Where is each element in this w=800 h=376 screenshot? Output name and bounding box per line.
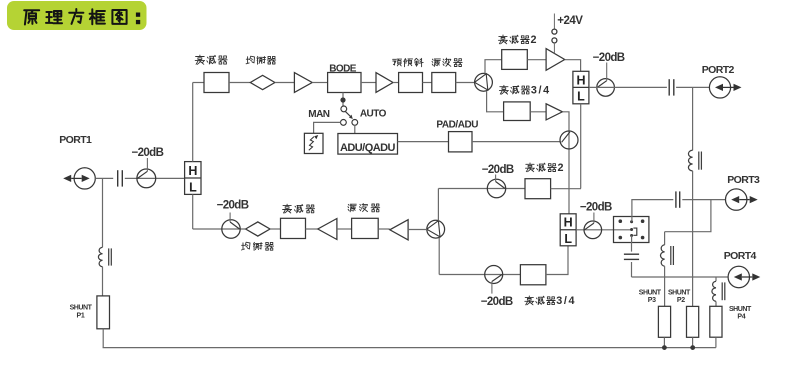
svg-text:L: L — [564, 232, 572, 246]
svg-text:SHUNT: SHUNT — [70, 305, 93, 312]
svg-text:BODE: BODE — [329, 64, 357, 75]
svg-text:/: / — [539, 85, 542, 97]
svg-text:H: H — [576, 73, 585, 87]
svg-text:−20dB: −20dB — [482, 164, 514, 176]
svg-text:L: L — [577, 90, 585, 104]
svg-text:2: 2 — [531, 34, 537, 46]
svg-text:3: 3 — [556, 295, 562, 307]
svg-text:MAN: MAN — [308, 109, 330, 120]
svg-text:−20dB: −20dB — [217, 200, 249, 212]
svg-text:SHUNT: SHUNT — [668, 290, 691, 297]
svg-text:L: L — [189, 180, 197, 194]
svg-text:SHUNT: SHUNT — [639, 290, 662, 297]
svg-text:AUTO: AUTO — [360, 108, 387, 119]
svg-text:−20dB: −20dB — [593, 52, 625, 64]
svg-text:P2: P2 — [677, 297, 685, 304]
svg-text:PORT4: PORT4 — [724, 250, 757, 262]
svg-text:P4: P4 — [737, 313, 745, 320]
svg-text:/: / — [564, 295, 567, 307]
svg-text:2: 2 — [558, 162, 564, 174]
svg-text:−20dB: −20dB — [131, 147, 163, 159]
svg-text:H: H — [564, 216, 573, 230]
svg-text:−20dB: −20dB — [580, 202, 612, 214]
svg-text:PORT1: PORT1 — [59, 134, 92, 146]
svg-text:P1: P1 — [77, 313, 85, 320]
svg-text:PORT3: PORT3 — [727, 174, 760, 186]
svg-text:−20dB: −20dB — [481, 296, 513, 308]
svg-text:PORT2: PORT2 — [702, 64, 735, 76]
svg-text:ADU/QADU: ADU/QADU — [340, 142, 395, 154]
svg-text:H: H — [188, 164, 197, 178]
svg-text:3: 3 — [531, 85, 537, 97]
svg-text:4: 4 — [543, 85, 549, 97]
svg-text:P3: P3 — [648, 297, 656, 304]
svg-text:+24V: +24V — [557, 15, 583, 27]
svg-text:SHUNT: SHUNT — [729, 306, 752, 313]
svg-text:PAD/ADU: PAD/ADU — [436, 120, 478, 131]
svg-text:4: 4 — [569, 295, 575, 307]
